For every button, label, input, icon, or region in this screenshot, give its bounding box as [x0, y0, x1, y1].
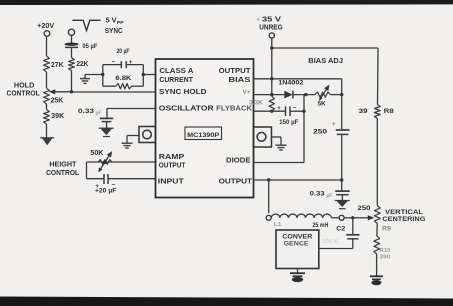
- svg-text:25K: 25K: [51, 98, 64, 105]
- wire R10 to ground: [376, 254, 378, 276]
- wire +20V down to 27K: [46, 36, 48, 56]
- junction C2 tap: [351, 216, 354, 219]
- capacitor 0.33uF output: [335, 190, 350, 192]
- svg-text:27K: 27K: [51, 62, 64, 69]
- test point jack left: [139, 127, 156, 143]
- capacitor +20uF height: [103, 174, 105, 184]
- wire 25K to 39K: [46, 104, 48, 110]
- top photo border band: [0, 0, 453, 5]
- resistor 39K: [44, 110, 50, 125]
- ground at left test point: [122, 142, 133, 144]
- svg-text:SYNC: SYNC: [105, 28, 123, 35]
- junction network input: [101, 73, 104, 76]
- wire height loop left edge: [86, 162, 88, 179]
- svg-text:µF: µF: [327, 193, 333, 199]
- svg-text:HOLD: HOLD: [14, 83, 34, 90]
- junction V+ row at 3.3K: [270, 93, 273, 96]
- svg-text:SYNC HOLD: SYNC HOLD: [159, 89, 206, 96]
- svg-text:50K: 50K: [90, 150, 103, 157]
- capacitor 250uF: [336, 129, 350, 131]
- wire SYNC HOLD row to IC: [72, 91, 156, 93]
- diode D1 1N4002: [284, 91, 292, 99]
- wire bias corner down: [341, 79, 343, 130]
- wire +35V junction to 3.3K: [271, 79, 273, 96]
- part number box MC1390P: [185, 127, 222, 140]
- svg-text:+20V: +20V: [37, 23, 54, 30]
- wire RAMP OUTPUT row: [87, 161, 156, 163]
- svg-text:VERTICAL: VERTICAL: [385, 209, 423, 216]
- wire test point to ground: [127, 135, 139, 137]
- junction 3.3K bottom: [270, 110, 273, 113]
- ground at right test point: [276, 144, 287, 146]
- svg-text:101 K: 101 K: [322, 239, 338, 245]
- sync pulse waveform symbol: [72, 20, 100, 30]
- wire .33uF to ground: [106, 122, 108, 128]
- svg-text:−: −: [293, 106, 297, 112]
- wire convergence to ground: [297, 269, 299, 273]
- bottom photo border band: [0, 296, 453, 306]
- wire coil terminal to junction: [344, 217, 353, 219]
- svg-text:20 µF: 20 µF: [117, 49, 130, 55]
- svg-text:35 V: 35 V: [262, 17, 281, 24]
- svg-text:0.33: 0.33: [310, 190, 325, 197]
- parallel network frame: [102, 65, 104, 87]
- wire bias row: [254, 78, 342, 80]
- svg-text:390: 390: [380, 254, 391, 260]
- inductor L1 25mH: [271, 214, 331, 218]
- junction output / yoke drop: [267, 178, 270, 181]
- test point jack right: [254, 127, 272, 147]
- svg-text:FLYBACK: FLYBACK: [216, 105, 252, 112]
- convergence circuit box: [276, 230, 319, 269]
- wire top rail to R8: [272, 47, 378, 49]
- wire FLYBACK row: [254, 110, 286, 112]
- wire 27K to 25K: [46, 72, 48, 88]
- svg-text:CONTROL: CONTROL: [7, 90, 41, 97]
- wire R8 rail down: [377, 48, 380, 105]
- wire V+ row: [254, 94, 285, 96]
- svg-text:25 mH: 25 mH: [312, 223, 328, 229]
- wire right test point to ground: [272, 136, 282, 138]
- wire OUTPUT pin row: [254, 179, 342, 181]
- svg-text:HEIGHT: HEIGHT: [49, 162, 77, 169]
- capacitor 0.33uF oscillator: [100, 117, 114, 119]
- svg-text:1N4002: 1N4002: [278, 81, 304, 87]
- ground at 6.8K network: [80, 78, 90, 80]
- resistor R8 39 ohm: [374, 105, 380, 119]
- wire .33 to ground: [341, 195, 343, 201]
- wire network to CLASS A pin: [143, 74, 155, 76]
- junction +35V tee: [270, 46, 273, 49]
- svg-text:22K: 22K: [76, 61, 88, 68]
- svg-text:µF: µF: [96, 111, 102, 117]
- wire sync terminal to capacitor: [71, 35, 73, 43]
- wire R8 to R9: [376, 119, 378, 206]
- svg-text:39K: 39K: [51, 113, 64, 120]
- svg-text:5K: 5K: [318, 101, 326, 108]
- svg-text:RAMP: RAMP: [159, 154, 185, 161]
- capacitor 20uF: [120, 61, 122, 68]
- svg-text:+20 µF: +20 µF: [95, 189, 117, 195]
- svg-text:−: −: [112, 182, 116, 189]
- capacitor .05uF: [65, 43, 79, 46]
- svg-text:PP: PP: [117, 20, 124, 25]
- svg-text:OUTPUT: OUTPUT: [219, 178, 253, 185]
- junction diode cathode: [304, 93, 307, 96]
- svg-text:R8: R8: [384, 108, 394, 115]
- wire .05uF to 22K: [71, 47, 73, 57]
- wire to .33 out cap: [341, 180, 343, 191]
- wiper arrow of 25K pot: [55, 91, 72, 93]
- ground below 39K: [42, 138, 53, 146]
- potentiometer 50K HEIGHT CONTROL: [98, 160, 112, 165]
- svg-text:+: +: [129, 60, 133, 66]
- svg-text:C2: C2: [336, 227, 346, 233]
- junction network output: [142, 73, 145, 76]
- svg-text:GENCE: GENCE: [284, 241, 310, 248]
- svg-text:CURRENT: CURRENT: [159, 77, 193, 84]
- svg-text:CONVER: CONVER: [282, 233, 312, 240]
- node coil left terminal: [266, 215, 271, 220]
- node coil right terminal: [339, 215, 344, 220]
- svg-text:R10: R10: [380, 248, 391, 254]
- junction 150uF row right: [302, 110, 305, 113]
- svg-text:−: −: [112, 59, 116, 65]
- svg-text:INPUT: INPUT: [158, 178, 185, 185]
- ground below R10: [370, 275, 383, 277]
- wire coil to right terminal: [331, 217, 339, 219]
- wire R9 to R10: [376, 224, 379, 237]
- node SYNC input terminal: [68, 29, 74, 35]
- capacitor 150uF: [285, 106, 287, 116]
- svg-text:R9: R9: [382, 227, 392, 233]
- potentiometer 25K HOLD CONTROL: [44, 88, 50, 104]
- resistor 27K: [44, 56, 50, 72]
- svg-text:3.3K: 3.3K: [249, 100, 264, 106]
- svg-text:OSCILLATOR: OSCILLATOR: [159, 105, 214, 112]
- ground stub wire: [85, 74, 103, 76]
- potentiometer R9 250 ohm VERTICAL CENTERING: [374, 206, 380, 224]
- svg-text:150 µF: 150 µF: [279, 120, 298, 126]
- wire +35V down: [271, 38, 273, 79]
- svg-text:CONTROL: CONTROL: [46, 170, 80, 177]
- svg-text:CLASS A: CLASS A: [159, 68, 193, 75]
- svg-text:+: +: [257, 18, 261, 24]
- junction 5K right end: [340, 93, 343, 96]
- ground below convergence box: [290, 272, 305, 274]
- wire C2 drop: [352, 218, 354, 235]
- ground below .33 output: [336, 201, 348, 208]
- svg-text:V+: V+: [243, 89, 251, 96]
- wire down to coil: [268, 180, 270, 213]
- resistor 6.8K: [116, 84, 132, 89]
- potentiometer 5K BIAS ADJ: [315, 92, 331, 97]
- svg-text:05 µF: 05 µF: [82, 43, 97, 50]
- svg-text:BIAS: BIAS: [228, 77, 251, 84]
- svg-text:OUTPUT: OUTPUT: [159, 163, 186, 170]
- resistor R10 390 ohm: [374, 236, 380, 254]
- svg-text:OUTPUT: OUTPUT: [219, 68, 252, 75]
- resistor 3.3K: [269, 96, 274, 111]
- wire 39K to ground: [46, 124, 48, 138]
- wire C2 to convergence box: [352, 239, 354, 248]
- svg-text:UNREG: UNREG: [259, 25, 283, 32]
- junction output row right: [340, 178, 343, 181]
- ground below .33uF: [100, 128, 112, 135]
- wire OSCILLATOR pin: [107, 108, 156, 110]
- wiper arrow vertical centering: [353, 217, 369, 219]
- svg-text:39: 39: [359, 108, 368, 115]
- svg-text:250: 250: [313, 128, 327, 135]
- junction 22K / hold wiper: [70, 90, 73, 93]
- svg-text:6.8K: 6.8K: [115, 75, 131, 82]
- svg-text:+: +: [277, 106, 281, 112]
- svg-text:250: 250: [358, 205, 371, 212]
- wire 22K to sync-hold row: [71, 71, 73, 93]
- svg-text:BIAS ADJ: BIAS ADJ: [308, 58, 343, 65]
- capacitor C2: [346, 234, 359, 236]
- svg-text:0.33: 0.33: [78, 108, 94, 115]
- wire x304 vertical: [303, 95, 305, 163]
- resistor 22K: [69, 58, 75, 71]
- svg-text:L1: L1: [274, 222, 282, 228]
- op-amp U1 MC1390P IC box: [156, 59, 254, 198]
- junction bias row / +35V: [270, 77, 273, 80]
- svg-text:+: +: [332, 122, 336, 128]
- svg-text:DIODE: DIODE: [226, 157, 251, 164]
- svg-text:5 V: 5 V: [106, 18, 117, 25]
- svg-text:MC1390P: MC1390P: [187, 132, 220, 139]
- wire INPUT row left: [87, 178, 104, 180]
- wire DIODE pin row: [254, 162, 305, 164]
- svg-text:CENTERING: CENTERING: [382, 216, 425, 223]
